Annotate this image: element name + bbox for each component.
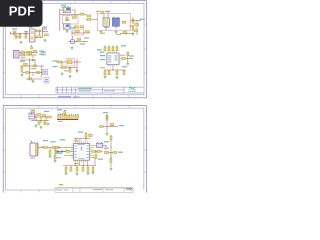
svg-text:TYC: TYC [126, 187, 133, 191]
ground E2a [32, 80, 35, 83]
teal K right [119, 125, 124, 126]
wire E2 rows [20, 58, 46, 79]
branch M left down [54, 155, 56, 159]
relay K2 [30, 29, 36, 42]
capacitor M right [95, 155, 97, 159]
ground M b4 [92, 171, 95, 174]
wire B in [86, 12, 108, 20]
junction D upper [71, 32, 72, 33]
olive text M bottom [74, 163, 79, 164]
MCU pins [71, 141, 91, 162]
capacitor G right v [127, 52, 129, 56]
net label C [12, 28, 17, 29]
green dots M top [85, 132, 86, 133]
capacitor C6 [25, 35, 27, 39]
purple G right [120, 55, 125, 56]
junction M left [59, 147, 60, 148]
teal label M top [78, 132, 83, 133]
wire B right [129, 17, 140, 35]
ground C2 [44, 39, 47, 42]
resistor R16 [33, 50, 37, 52]
junction E2 [29, 59, 30, 60]
net label L [43, 140, 48, 141]
teal labels F left [41, 52, 46, 53]
ground G b1 [104, 75, 107, 78]
wire L [38, 146, 57, 150]
net label D [70, 27, 75, 28]
green text above relay [29, 27, 33, 28]
ground M left [54, 159, 57, 162]
resistor R3 [75, 26, 79, 28]
transistor Q1 [70, 39, 75, 44]
net names under badge [42, 29, 47, 30]
green mark top [61, 6, 62, 7]
resistor R15 [21, 54, 25, 56]
junction N [110, 152, 111, 153]
resistor D lower [77, 38, 81, 40]
svg-text:PDF: PDF [9, 4, 36, 19]
wire E [19, 53, 38, 59]
resistor R28 [37, 114, 41, 116]
junction G bottom [112, 69, 113, 70]
wire I [32, 111, 49, 123]
block box F [66, 59, 75, 67]
resistor E2b [33, 65, 37, 67]
net label J [57, 109, 62, 110]
ground F3 [76, 69, 79, 72]
purple N [104, 148, 109, 149]
wire bus J [57, 119, 78, 121]
ground E2b [21, 73, 24, 76]
junction M bottom [75, 165, 76, 166]
ground B1 [100, 31, 103, 34]
crystal Y1 [97, 143, 103, 147]
capacitor right B3 [132, 27, 134, 31]
transformer T1 [63, 7, 70, 13]
resistor R4 [80, 13, 84, 15]
ground G right [126, 62, 129, 65]
teal label L2 [57, 153, 62, 154]
resistor G right1 [122, 58, 126, 60]
wire N [105, 140, 117, 167]
ground K [106, 132, 109, 135]
pad under badge [44, 27, 46, 28]
junction K [106, 120, 107, 121]
ground D [71, 46, 74, 49]
resistor R14 [21, 51, 25, 53]
resistor E2e [28, 78, 32, 80]
net label A1 [61, 5, 66, 6]
resistor M left row2 [66, 150, 70, 152]
purple text in box [104, 27, 109, 28]
resistor R20 vertical [106, 116, 108, 120]
junction C [13, 33, 14, 34]
MCU center mark [81, 147, 82, 151]
ground M b3 [87, 172, 90, 175]
purple text L [30, 158, 35, 159]
resistor M top [85, 134, 87, 138]
battery plus [31, 141, 33, 143]
capacitor E2f [21, 68, 23, 72]
teal text E2 [20, 61, 25, 62]
wire K [102, 116, 118, 133]
resistor R23b [53, 147, 57, 149]
teal right of B [140, 19, 145, 20]
pin numbers J [58, 114, 63, 115]
green mark N [110, 135, 111, 136]
ground G b2 [116, 76, 119, 79]
purple text F [64, 70, 69, 71]
ground M b1 [65, 172, 68, 175]
connector J2 [14, 51, 20, 59]
junction under box [105, 29, 106, 30]
IC red stubs [106, 26, 116, 29]
MCU pin names [74, 144, 88, 159]
resistor R17 in box [68, 60, 73, 64]
ground F2 [69, 75, 72, 78]
wire M top power [74, 137, 90, 141]
net names J [58, 121, 63, 122]
junction E [20, 52, 21, 53]
teal D lower [80, 43, 85, 44]
resistor M right2 [97, 150, 101, 152]
junctions B right [132, 20, 133, 21]
resistor in box D [76, 30, 80, 32]
wire D lower [69, 36, 89, 42]
ground N [110, 167, 113, 170]
MCU U6 body [73, 143, 89, 160]
resistor R29 [42, 115, 46, 117]
olive text G bottom [100, 67, 105, 68]
teal labels E [39, 51, 44, 52]
resistor R27b [113, 152, 117, 154]
resistor R30 [48, 116, 52, 118]
green dots crystal [97, 142, 98, 143]
resistor right B4 [134, 30, 138, 32]
resistor M top2 [89, 135, 93, 137]
purple label in box [65, 20, 70, 21]
regulator U5 [29, 113, 35, 119]
wire B bottom-right [120, 33, 133, 35]
capacitor row G [104, 71, 106, 75]
junction G right [127, 58, 128, 59]
teal G right [129, 55, 134, 56]
component box E2 lower [44, 78, 49, 84]
ground E [32, 58, 35, 61]
resistor R23 [44, 147, 48, 149]
ground B2 [115, 31, 118, 34]
capacitor C2 [66, 17, 68, 21]
resistor R19 [62, 67, 66, 69]
capacitor C11 [38, 121, 40, 125]
resistor R3b [80, 26, 84, 28]
resistor R11 [45, 34, 49, 36]
ground I1 [35, 124, 38, 127]
green dot B wire end [139, 20, 140, 21]
junction M right [95, 151, 96, 152]
net label left border 1 [8, 11, 13, 12]
varistor RV1 [19, 35, 21, 39]
dot RN1 [64, 110, 65, 111]
junction F [61, 61, 62, 62]
junction I [35, 116, 36, 117]
block box D upper [74, 29, 84, 35]
IC U4 body [107, 53, 119, 65]
wire G right [121, 56, 133, 62]
ground A [66, 30, 69, 33]
teal N [118, 152, 123, 153]
resistor R21 [100, 126, 104, 128]
capacitor C14 [49, 151, 51, 155]
ground M right [105, 151, 108, 154]
net label K [103, 112, 108, 113]
resistor R27a [105, 152, 109, 154]
resistor E2c [26, 72, 30, 74]
ground L [49, 155, 52, 158]
wire G bottom [104, 66, 126, 72]
green dots left pins [71, 147, 72, 148]
IC U3 [113, 18, 120, 26]
green dots M right extra [92, 147, 93, 148]
resistor R9 [37, 30, 41, 32]
resistor M right3 [92, 150, 96, 152]
purple text E [21, 57, 26, 58]
svg-text:TYC: TYC [129, 87, 136, 91]
ground M b2 [76, 172, 79, 175]
resistor right B2 [135, 24, 139, 26]
capacitor pair E [27, 51, 29, 55]
green pins on ICs [103, 17, 104, 18]
block box B [98, 14, 131, 31]
resistor D right [86, 31, 90, 33]
ground I2 [40, 126, 43, 129]
ground F1 [61, 72, 64, 75]
resistor RN1 [64, 111, 66, 115]
capacitor C10 [69, 69, 71, 73]
diode pair M left blue [57, 151, 60, 153]
pad above U5 [33, 111, 35, 112]
junction D lower [76, 41, 77, 42]
fuse F1 [13, 31, 16, 33]
purple text E2 [31, 68, 36, 69]
resistor R22 [110, 124, 114, 126]
resistor E2d [36, 72, 40, 74]
wire M bottom [63, 162, 96, 167]
green mark E top [31, 45, 32, 46]
teal label M left [51, 141, 56, 142]
net label G right-top [121, 45, 126, 46]
wire M left [55, 148, 71, 156]
purple text C [16, 36, 21, 37]
capacitor N low [110, 159, 112, 163]
wire D upper [72, 29, 90, 36]
resistor R8 [122, 21, 126, 23]
wire F [56, 59, 81, 73]
teal M right [104, 141, 109, 142]
teal label C right [42, 27, 47, 28]
ground B3 [132, 32, 135, 35]
junction dots on T1 [64, 6, 65, 7]
teal G bottom [122, 66, 127, 67]
junction A2 [59, 14, 60, 15]
junction A3 [74, 14, 75, 15]
resistor R26 vertical [110, 136, 112, 140]
green pin dots J [58, 114, 79, 115]
resistor R10 [37, 36, 41, 38]
resistor R7 vertical [132, 19, 134, 23]
olive pin numbers top [74, 140, 79, 141]
teal labels left of U4 [100, 55, 105, 56]
teal D lower2 [84, 37, 89, 38]
olive label under box [100, 33, 105, 34]
resistor R5 [87, 15, 91, 17]
capacitor row M bottom [65, 168, 67, 172]
IC U4 pins [105, 51, 120, 66]
top components G [104, 47, 106, 51]
labels I [44, 111, 49, 112]
resistor E2a [24, 63, 28, 65]
label row above block B [96, 11, 101, 12]
resistor under box [123, 32, 127, 34]
resistor R6 [87, 19, 91, 21]
ground C1 [20, 41, 23, 44]
purple text M left [56, 157, 61, 158]
header J3 pins [58, 115, 59, 119]
block box A [63, 16, 79, 25]
resistor M left row1 [56, 146, 60, 148]
wire C [11, 28, 43, 38]
ground I3 [47, 122, 50, 125]
component box E2 upper [42, 69, 48, 75]
wire A [60, 9, 87, 32]
capacitor C15 [55, 150, 57, 154]
IC U2 [103, 18, 110, 26]
battery BT1 [30, 143, 38, 156]
relay K1 [63, 24, 70, 29]
junction L [41, 147, 42, 148]
resistor R2 in box [73, 17, 77, 19]
capacitor C5 [15, 35, 17, 39]
teal G top-left [97, 49, 102, 50]
wire M right [92, 146, 106, 166]
teal label M left2 [60, 139, 65, 140]
capacitor C12 [44, 121, 46, 125]
resistor R18 [58, 61, 62, 63]
